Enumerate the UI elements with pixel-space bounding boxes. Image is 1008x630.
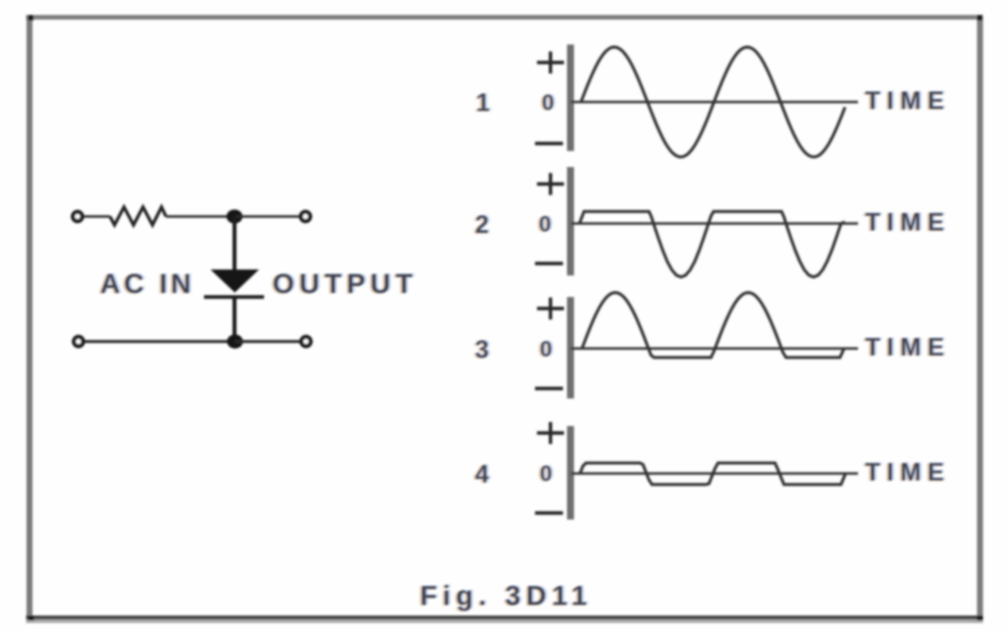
- plus sign row3: [537, 298, 564, 320]
- node: AC IN top terminal: [73, 212, 82, 221]
- wire resistor to top junction: [166, 215, 235, 218]
- svg-text:AC IN: AC IN: [100, 268, 195, 299]
- junction top node: [227, 210, 243, 224]
- junction bottom node: [227, 335, 243, 349]
- axis bar row3: [567, 297, 574, 399]
- minus sign row4: [535, 511, 563, 514]
- axis bar row2: [567, 167, 574, 276]
- zero line row2: [571, 222, 858, 225]
- svg-text:0: 0: [542, 90, 554, 115]
- svg-text:0: 0: [540, 461, 552, 486]
- wire top junction to output terminal: [235, 215, 300, 218]
- svg-text:TIME: TIME: [865, 459, 951, 487]
- plus sign row4: [537, 422, 564, 444]
- svg-text:TIME: TIME: [865, 334, 951, 362]
- node: OUTPUT bottom terminal: [301, 337, 310, 346]
- svg-text:0: 0: [540, 337, 552, 362]
- svg-text:0: 0: [539, 212, 551, 237]
- waveform 2: positive-clipped sine: [580, 212, 846, 278]
- resistor R1: [110, 207, 166, 225]
- zero line row3: [571, 347, 858, 350]
- zero line row1: [571, 101, 858, 104]
- border frame: [26, 15, 983, 20]
- svg-text:2: 2: [475, 211, 489, 239]
- waveform 3: half-wave rectified: [582, 293, 844, 358]
- wire bottom rail left: [85, 340, 235, 343]
- svg-text:Fig. 3D11: Fig. 3D11: [420, 580, 592, 611]
- minus sign row1: [535, 142, 563, 145]
- diode D1 cathode bar: [204, 295, 264, 299]
- node: AC IN bottom terminal: [74, 337, 83, 346]
- plus sign row2: [537, 173, 564, 195]
- axis bar row1: [567, 45, 574, 152]
- svg-text:4: 4: [475, 461, 489, 489]
- svg-text:3: 3: [475, 336, 489, 364]
- svg-text:1: 1: [476, 89, 490, 117]
- svg-text:OUTPUT: OUTPUT: [273, 268, 418, 299]
- plus sign row1: [537, 52, 564, 74]
- wire diode to bottom junction: [233, 297, 237, 342]
- wire vertical from top junction to diode: [233, 217, 237, 271]
- axis bar row4: [567, 426, 574, 520]
- svg-text:TIME: TIME: [865, 209, 951, 237]
- minus sign row2: [535, 262, 563, 265]
- wire top-left to resistor: [84, 215, 110, 218]
- minus sign row3: [535, 387, 563, 390]
- waveform 4: double-clipped square-ish: [580, 463, 846, 485]
- zero line row4: [571, 472, 858, 475]
- svg-text:TIME: TIME: [865, 87, 951, 115]
- diode D1 (anode triangle): [211, 270, 260, 293]
- node: OUTPUT top terminal: [301, 212, 310, 221]
- wire bottom rail right: [235, 340, 300, 343]
- waveform 1: full sine: [581, 47, 845, 157]
